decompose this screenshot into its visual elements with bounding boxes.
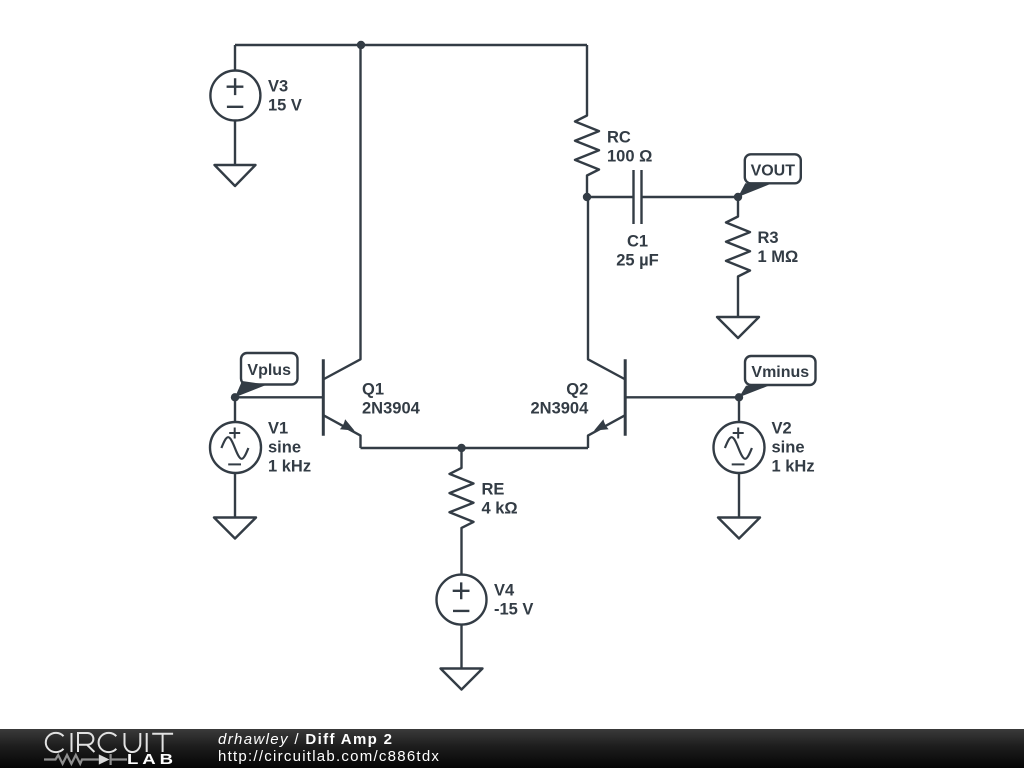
svg-text:Q2: Q2 bbox=[566, 380, 588, 398]
svg-text:2N3904: 2N3904 bbox=[362, 400, 421, 418]
svg-text:Q1: Q1 bbox=[362, 380, 384, 398]
svg-text:V1: V1 bbox=[268, 420, 288, 438]
svg-text:-15 V: -15 V bbox=[494, 601, 533, 619]
svg-text:100 Ω: 100 Ω bbox=[607, 148, 652, 166]
svg-text:R3: R3 bbox=[758, 229, 779, 247]
svg-text:sine: sine bbox=[772, 439, 805, 457]
svg-text:C1: C1 bbox=[627, 233, 648, 251]
svg-text:Vplus: Vplus bbox=[247, 362, 291, 379]
svg-text:4 kΩ: 4 kΩ bbox=[482, 500, 518, 518]
svg-text:VOUT: VOUT bbox=[751, 163, 796, 180]
svg-text:1 MΩ: 1 MΩ bbox=[758, 248, 799, 266]
svg-text:1 kHz: 1 kHz bbox=[772, 458, 815, 476]
svg-text:2N3904: 2N3904 bbox=[530, 400, 589, 418]
svg-text:V3: V3 bbox=[268, 78, 288, 96]
svg-text:sine: sine bbox=[268, 439, 301, 457]
svg-text:Vminus: Vminus bbox=[751, 364, 809, 381]
svg-text:V4: V4 bbox=[494, 582, 515, 600]
svg-text:RE: RE bbox=[482, 481, 505, 499]
svg-text:1 kHz: 1 kHz bbox=[268, 458, 311, 476]
svg-text:25 µF: 25 µF bbox=[616, 252, 659, 270]
svg-text:15 V: 15 V bbox=[268, 97, 302, 115]
svg-text:V2: V2 bbox=[772, 420, 792, 438]
svg-text:LAB: LAB bbox=[127, 751, 177, 767]
svg-text:RC: RC bbox=[607, 129, 631, 147]
